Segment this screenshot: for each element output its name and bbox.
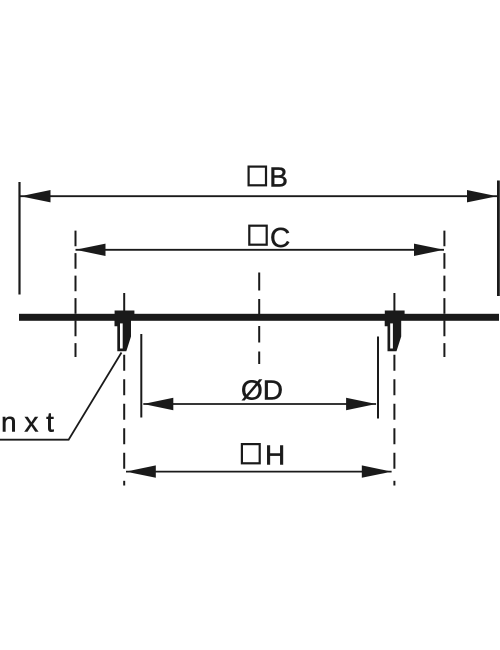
arrowhead C left [76,244,106,256]
arrowhead C right [414,244,444,256]
arrowhead H left [126,465,156,477]
extension line left (D) [140,334,142,418]
panel bar [19,314,499,321]
extension line left (B) [18,182,20,295]
clip right block [385,311,405,315]
svg-text:C: C [270,222,290,253]
dimension line D [143,403,376,405]
extension line right dashed (C) [443,231,445,357]
extension line right (B) [497,181,500,297]
svg-text:B: B [269,161,288,192]
arrowhead D right [346,398,376,410]
clip left slot [120,323,123,348]
dimension line C [76,249,445,251]
arrowhead B left [21,190,51,202]
svg-text:ØD: ØD [241,375,283,406]
svg-text:n x t: n x t [1,407,54,438]
dimension line H [126,471,392,473]
clip axis right upper dash [393,293,395,311]
clip left body [115,321,132,352]
center line upper [258,273,260,315]
label square H [242,444,260,463]
leader line n x t [0,353,122,440]
svg-text:H: H [265,440,285,471]
extension line left dashed (C) [75,231,77,357]
clip left block [115,311,135,315]
label square B [249,167,266,186]
clip axis left upper dash [123,293,125,311]
dimension line B [21,195,498,197]
arrowhead D left [143,398,173,410]
clip axis right lower dashed [393,355,395,469]
center line lower [258,326,260,364]
arrowhead B right [467,190,497,202]
extension line right (D) [377,337,379,419]
clip right body [385,321,402,352]
clip axis left lower dashed [123,355,125,469]
arrowhead H right [362,465,392,477]
clip right slot [390,323,393,348]
label square C [249,226,266,245]
